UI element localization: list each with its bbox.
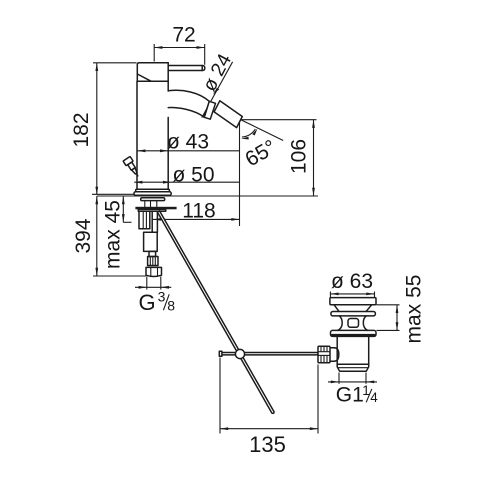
- horizontal linkage rod: [219, 351, 318, 356]
- dimension 394 line: [93, 196, 146, 276]
- faucet handle cap: [137, 63, 168, 81]
- mounting plate under deck: [136, 207, 176, 211]
- dimension phi63 line: [330, 292, 374, 298]
- hose upper section: [144, 232, 158, 251]
- dimension 106 line: [241, 120, 317, 196]
- svg-text:106: 106: [288, 139, 311, 174]
- dimension 135 extension lines: [220, 358, 318, 434]
- drain overflow window: [348, 319, 359, 328]
- deck reference line: [97, 195, 318, 197]
- label G3/8 text: [139, 289, 176, 316]
- drain plug disc: [330, 298, 376, 305]
- drain collar ring: [331, 312, 376, 316]
- label G1 1/4 text: [336, 383, 378, 407]
- faucet handle lever: [168, 66, 205, 71]
- svg-text:ø 63: ø 63: [331, 270, 373, 293]
- svg-text:max 45: max 45: [102, 200, 125, 269]
- svg-text:4: 4: [370, 390, 378, 405]
- linkage ball joint: [235, 349, 244, 358]
- rod connector cylinder: [330, 348, 339, 361]
- dimension max 45 line: [122, 196, 132, 222]
- dimension G1 1/4 line: [328, 381, 377, 384]
- hose outlet tube: [152, 211, 157, 232]
- faucet spout tube: [168, 90, 209, 117]
- dimension 182 line: [92, 63, 137, 195]
- lock washer under deck: [141, 198, 165, 201]
- hose end nut G3/8: [146, 267, 162, 276]
- dimension G3/8 extension lines: [147, 277, 161, 290]
- dimension max55 line: [396, 305, 399, 331]
- drain taper neck: [334, 305, 372, 312]
- threaded mounting shank: [139, 211, 150, 229]
- dimension 65 deg: extension of aerator axis: [241, 120, 283, 141]
- drain thread tail: [337, 364, 369, 371]
- svg-text:135: 135: [249, 432, 286, 457]
- svg-text:72: 72: [172, 24, 195, 47]
- dimension 72 line: [154, 44, 205, 65]
- dimension 135 line: [220, 427, 318, 430]
- svg-text:max 55: max 55: [403, 275, 426, 344]
- dimension 65 deg arc: [241, 128, 257, 139]
- svg-text:ø 43: ø 43: [167, 131, 209, 154]
- dimension phi43 line: [137, 149, 239, 152]
- drain waist: [338, 316, 368, 331]
- svg-text:G1: G1: [336, 384, 364, 407]
- svg-text:394: 394: [72, 218, 95, 253]
- hose neck: [149, 251, 156, 256]
- spout ring: [204, 101, 215, 119]
- svg-text:182: 182: [70, 112, 93, 147]
- drain body tube: [337, 336, 369, 364]
- drain bottom flange: [331, 330, 377, 336]
- dimension phi50 line: [134, 181, 239, 184]
- svg-text:8: 8: [167, 297, 175, 313]
- dimension G1 1/4 extension lines: [339, 373, 366, 384]
- svg-text:ø 50: ø 50: [172, 163, 214, 186]
- shank thread lines through washer: [145, 201, 157, 208]
- dimension phi24 leader: [202, 62, 233, 118]
- faucet body: [137, 63, 168, 190]
- dimension G3/8 line: [135, 286, 171, 289]
- faucet base flange: [134, 189, 171, 195]
- rod connector knurled nut: [318, 346, 330, 362]
- svg-text:3: 3: [158, 289, 166, 305]
- hose braid section: [148, 257, 158, 266]
- dimension 118 line: [153, 218, 240, 221]
- pop-up rod (diagonal): [157, 211, 274, 414]
- dimension max55 extension lines: [377, 305, 400, 331]
- fixing screw stud: [123, 156, 141, 178]
- spout aerator: [214, 101, 242, 128]
- svg-text:G: G: [139, 290, 156, 315]
- jet axis vertical line: [239, 120, 241, 226]
